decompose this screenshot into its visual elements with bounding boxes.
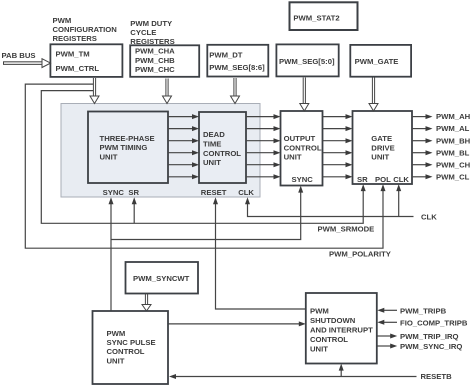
svg-text:RESETB: RESETB [421, 372, 453, 381]
svg-text:PAB BUS: PAB BUS [2, 51, 36, 60]
wire SYNC net from sync pulse unit [110, 203, 112, 311]
wire CLK net [248, 203, 414, 216]
box pwm shutdown and interrupt control unit [306, 293, 377, 364]
arrowhead RESETB into sync pulse unit [169, 374, 176, 379]
svg-text:SYNC: SYNC [292, 175, 314, 184]
arrowhead POL into gate drive unit [381, 184, 386, 191]
box pwm configuration registers [50, 16, 122, 77]
arrowhead into shutdown unit bottom [339, 364, 344, 371]
svg-text:PWM_GATE: PWM_GATE [355, 57, 399, 66]
svg-text:CONTROL: CONTROL [107, 347, 145, 356]
svg-text:PWM_CL: PWM_CL [436, 172, 470, 181]
svg-text:PWM_SEG[8:6]: PWM_SEG[8:6] [209, 63, 265, 72]
svg-text:TIME: TIME [203, 140, 221, 149]
box pwm duty cycle registers [130, 19, 199, 77]
svg-text:PWM_SYNCWT: PWM_SYNCWT [133, 274, 190, 283]
wire sync pulse unit to shutdown unit [168, 323, 300, 325]
svg-text:RESET: RESET [201, 188, 227, 197]
wire RESETB branch up to shutdown unit [340, 370, 342, 377]
wire RESET net from shutdown unit [216, 203, 306, 309]
svg-text:PWM_CHB: PWM_CHB [135, 56, 175, 65]
svg-text:UNIT: UNIT [203, 158, 221, 167]
svg-text:CONTROL: CONTROL [284, 143, 322, 152]
svg-text:PWM_STAT2: PWM_STAT2 [293, 14, 339, 23]
arrowhead SYNC into timing region [109, 197, 114, 204]
wire SR tap up into timing region [133, 203, 135, 223]
box pwm_stat2 register [290, 2, 358, 30]
arrowhead SR into timing region [132, 197, 137, 204]
svg-text:PWM DUTY: PWM DUTY [130, 19, 172, 28]
svg-text:UNIT: UNIT [284, 152, 302, 161]
bus config registers to timing region (double arrow) [90, 78, 99, 104]
bus PAB BUS arrow [4, 59, 51, 68]
svg-text:PWM_POLARITY: PWM_POLARITY [329, 250, 391, 259]
box pwm_syncwt register [126, 262, 199, 294]
svg-text:UNIT: UNIT [371, 153, 389, 162]
svg-text:PWM_TM: PWM_TM [56, 50, 90, 59]
svg-text:CLK: CLK [393, 175, 409, 184]
bus duty cycle registers to timing region (double arrow) [163, 79, 172, 104]
shaded timing region [61, 104, 260, 198]
box pwm_dt / pwm_seg registers [207, 45, 268, 77]
svg-text:PWM_BH: PWM_BH [436, 136, 471, 145]
wires output control unit to gate drive unit (6 arrows) [323, 117, 347, 177]
svg-text:GATE: GATE [371, 134, 392, 143]
svg-text:PWM: PWM [107, 329, 126, 338]
wire SYNC branch to output control unit [111, 192, 301, 240]
svg-text:CONFIGURATION: CONFIGURATION [53, 25, 118, 34]
svg-text:UNIT: UNIT [100, 153, 118, 162]
wire rail A (PWM_POLARITY from config registers) [25, 84, 383, 248]
svg-text:SYNC PULSE: SYNC PULSE [107, 338, 156, 347]
svg-text:CYCLE: CYCLE [130, 28, 156, 37]
svg-text:SYNC: SYNC [103, 188, 125, 197]
box three-phase pwm timing unit [88, 112, 168, 184]
svg-text:CLK: CLK [421, 212, 437, 221]
arrowhead CLK into timing region [245, 197, 250, 204]
svg-text:PWM_TRIP_IRQ: PWM_TRIP_IRQ [400, 332, 459, 341]
svg-text:CLK: CLK [238, 188, 254, 197]
svg-text:PWM_CHC: PWM_CHC [135, 65, 175, 74]
svg-text:PWM_SEG[5:0]: PWM_SEG[5:0] [279, 57, 335, 66]
svg-text:SHUTDOWN: SHUTDOWN [310, 316, 356, 325]
box pwm sync pulse control unit [93, 311, 169, 384]
svg-text:PWM_SYNC_IRQ: PWM_SYNC_IRQ [400, 342, 462, 351]
wire PWM_TRIP_IRQ output [377, 335, 391, 337]
wire PWM_SYNC_IRQ output [377, 345, 391, 347]
svg-text:DRIVE: DRIVE [371, 143, 395, 152]
box pwm_gate register [350, 45, 411, 77]
svg-text:UNIT: UNIT [107, 356, 125, 365]
svg-text:PWM_TRIPB: PWM_TRIPB [400, 306, 447, 315]
svg-text:POL: POL [375, 175, 391, 184]
wires dead time unit to output control unit (6 arrows) [246, 117, 275, 177]
bus syncwt to sync pulse unit (double arrow) [142, 294, 151, 312]
svg-text:SR: SR [128, 188, 139, 197]
bus gate register to gate drive unit (double arrow) [369, 78, 378, 112]
svg-text:THREE-PHASE: THREE-PHASE [100, 134, 155, 143]
svg-text:PWM TIMING: PWM TIMING [100, 143, 148, 152]
arrowhead into shutdown unit [299, 321, 306, 326]
svg-text:UNIT: UNIT [310, 344, 328, 353]
svg-text:SR: SR [357, 175, 368, 184]
svg-text:AND INTERRUPT: AND INTERRUPT [310, 326, 373, 335]
box pwm_seg[5:0] register [276, 44, 338, 76]
svg-text:PWM_CH: PWM_CH [436, 160, 471, 169]
svg-text:DEAD: DEAD [203, 130, 225, 139]
svg-text:PWM_AL: PWM_AL [436, 124, 470, 133]
wire RESETB net [175, 376, 417, 378]
arrowhead SYNC into output control unit [298, 186, 303, 193]
bus dt/seg registers to timing region (double arrow) [231, 78, 240, 104]
wire PWM_TRIPB input [383, 309, 397, 311]
wires gate drive unit outputs (6 arrows) [412, 117, 427, 177]
wire CLK tap up into gate drive unit [398, 190, 400, 216]
svg-text:PWM_AH: PWM_AH [436, 112, 471, 121]
box gate drive unit [353, 111, 413, 184]
svg-text:OUTPUT: OUTPUT [284, 134, 316, 143]
svg-text:PWM_CHA: PWM_CHA [135, 47, 175, 56]
wire rail B (PWM_SRMODE from config registers) [41, 91, 363, 224]
svg-text:PWM_DT: PWM_DT [209, 51, 243, 60]
svg-text:PWM_SRMODE: PWM_SRMODE [318, 225, 375, 234]
svg-text:PWM_CTRL: PWM_CTRL [56, 64, 100, 73]
box dead time control unit [199, 112, 246, 183]
svg-text:PWM_BL: PWM_BL [436, 148, 470, 157]
svg-text:CONTROL: CONTROL [203, 149, 241, 158]
svg-text:FIO_COMP_TRIPB: FIO_COMP_TRIPB [400, 318, 468, 327]
wires timing unit to dead time unit (6 arrows) [168, 117, 193, 177]
svg-text:REGISTERS: REGISTERS [53, 34, 97, 43]
arrowhead SR into gate drive unit [361, 184, 366, 191]
svg-text:PWM: PWM [310, 307, 329, 316]
svg-text:CONTROL: CONTROL [310, 335, 348, 344]
bus seg[5:0] register to output control unit (double arrow) [300, 78, 309, 112]
arrowhead CLK into gate drive unit [396, 184, 401, 191]
svg-text:PWM: PWM [53, 16, 72, 25]
arrowhead RESET into timing region [213, 197, 218, 204]
wire FIO_COMP_TRIPB input [383, 321, 397, 323]
box output control unit [281, 111, 323, 186]
